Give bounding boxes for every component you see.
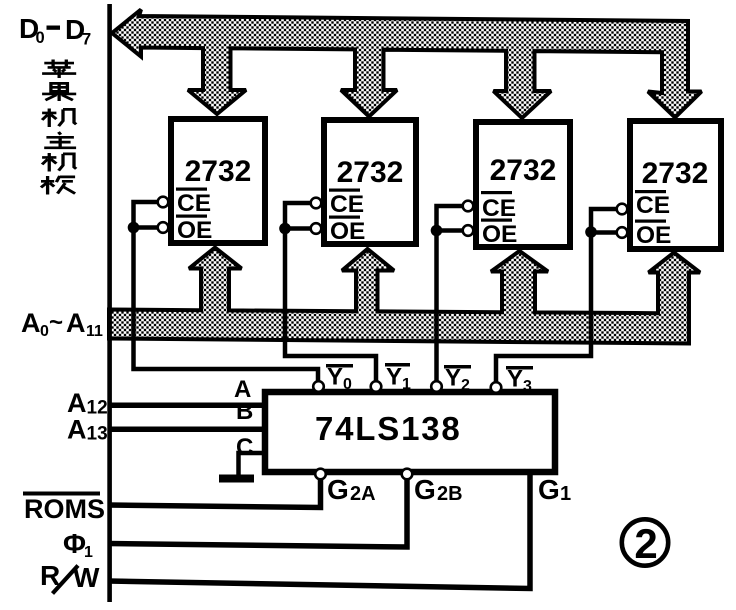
svg-text:C: C	[236, 434, 253, 461]
label Y1	[385, 363, 411, 393]
junction dot chip1	[128, 222, 140, 234]
pin bubble Y2	[431, 381, 442, 392]
svg-text:ROMS: ROMS	[24, 494, 105, 524]
svg-text:Y: Y	[445, 365, 461, 392]
pin bubble Y3	[491, 382, 502, 393]
svg-text:13: 13	[87, 424, 108, 445]
wire chip1 CE/OE to Y0	[134, 202, 319, 382]
address bus A0-A11 (hatched band with four up arrows)	[109, 248, 700, 344]
pin bubble chip1 OE	[158, 222, 169, 233]
pin bubble chip3 CE	[463, 201, 474, 212]
svg-text:A: A	[66, 308, 86, 338]
pin bubble G2A	[315, 469, 326, 480]
hanzi ping (apple-1)	[42, 60, 76, 78]
wire chip2 CE/OE to Y1	[285, 203, 376, 382]
wire A13 to pin B	[108, 427, 264, 433]
left border line (motherboard edge)	[107, 4, 112, 602]
label Y0	[326, 364, 353, 394]
hanzi ban (board)	[41, 176, 75, 194]
label pin C	[236, 434, 253, 461]
ground	[219, 475, 254, 483]
svg-text:W: W	[73, 562, 100, 593]
junction dot chip2	[279, 223, 291, 235]
junction dot chip3	[431, 225, 443, 237]
label A12	[67, 388, 108, 419]
EPROM U2 2732	[324, 120, 416, 245]
label G1	[538, 474, 571, 505]
label ROMS (active low)	[23, 492, 105, 525]
label G2A	[327, 474, 376, 505]
svg-text:2732: 2732	[490, 154, 557, 187]
label R/W	[40, 560, 100, 594]
decoder U5 74LS138	[265, 392, 555, 472]
pin bubble chip3 OE	[463, 225, 474, 236]
wire chip4 CE/OE to Y3	[496, 209, 616, 383]
svg-text:CE: CE	[636, 192, 670, 219]
label Y2	[444, 365, 471, 395]
svg-text:2732: 2732	[642, 157, 709, 190]
svg-text:1: 1	[560, 483, 571, 505]
junction dot chip4	[585, 226, 597, 238]
svg-text:CE: CE	[177, 190, 211, 217]
svg-text:OE: OE	[482, 221, 517, 248]
svg-text:0: 0	[36, 29, 45, 47]
pin bubble chip2 OE	[311, 223, 322, 234]
svg-text:OE: OE	[636, 222, 671, 249]
svg-text:12: 12	[87, 398, 108, 419]
svg-text:11: 11	[86, 323, 103, 340]
figure number 2 in circle	[622, 519, 668, 567]
svg-text:A: A	[67, 388, 87, 418]
label pin A	[234, 376, 251, 403]
label G2B	[414, 474, 463, 505]
svg-text:A: A	[67, 415, 87, 445]
hanzi ji (machine-2)	[42, 153, 76, 171]
wire ROMS to G2A	[108, 480, 321, 508]
svg-text:B: B	[236, 398, 253, 425]
svg-text:Y: Y	[386, 364, 402, 391]
wire PHI1 to G2B	[108, 480, 407, 547]
label A13	[67, 415, 108, 445]
svg-text:74LS138: 74LS138	[315, 410, 462, 447]
svg-text:Φ: Φ	[63, 528, 86, 559]
hanzi guo (fruit)	[42, 83, 76, 101]
svg-text:Y: Y	[507, 366, 523, 393]
EPROM U4 2732	[630, 121, 721, 249]
label A0~A11	[21, 308, 103, 340]
pin bubble Y1	[371, 381, 382, 392]
svg-text:G: G	[414, 474, 436, 505]
svg-text:2: 2	[634, 520, 657, 567]
chinese caption: apple computer motherboard (ping guo ji zhu ji ban)	[41, 60, 76, 195]
svg-text:CE: CE	[330, 191, 364, 218]
pin bubble chip2 CE	[311, 198, 322, 209]
label PHI1	[63, 528, 93, 561]
svg-text:2732: 2732	[337, 156, 404, 189]
svg-text:A: A	[21, 308, 41, 338]
svg-text:G: G	[327, 474, 349, 505]
wire chip3 CE/OE to Y2	[437, 206, 465, 382]
wire A12 to pin A	[108, 403, 264, 409]
svg-text:OE: OE	[330, 218, 365, 245]
pin bubble chip1 CE	[158, 197, 169, 208]
svg-text:0: 0	[343, 376, 352, 393]
label D0-D7	[19, 13, 91, 49]
svg-text:~: ~	[49, 309, 63, 336]
svg-text:0: 0	[40, 323, 49, 340]
svg-text:G: G	[538, 474, 560, 505]
data bus D0-D7 (hatched band with left arrow and four down branches)	[112, 10, 702, 119]
svg-text:CE: CE	[482, 195, 516, 222]
hanzi zhu (main)	[44, 132, 76, 148]
svg-text:2732: 2732	[185, 155, 252, 188]
svg-text:2A: 2A	[350, 483, 376, 505]
svg-text:Y: Y	[327, 364, 343, 391]
pin bubble G2B	[402, 469, 413, 480]
EPROM U1 2732	[171, 119, 265, 244]
pin bubble chip4 CE	[617, 204, 628, 215]
svg-text:2B: 2B	[437, 483, 463, 505]
hanzi ji (machine-1)	[42, 109, 76, 127]
svg-text:2: 2	[461, 377, 470, 394]
svg-text:7: 7	[82, 31, 91, 49]
svg-text:3: 3	[523, 378, 532, 395]
label pin B	[236, 398, 253, 425]
svg-text:1: 1	[402, 376, 411, 393]
wire pin C to ground	[239, 453, 264, 476]
pin bubble Y0	[313, 381, 324, 392]
svg-text:1: 1	[84, 544, 93, 561]
svg-text:OE: OE	[177, 217, 212, 244]
label Y3	[506, 366, 533, 396]
wire R/W to G1	[108, 472, 530, 589]
EPROM U3 2732	[476, 122, 570, 248]
pin bubble chip4 OE	[617, 227, 628, 238]
